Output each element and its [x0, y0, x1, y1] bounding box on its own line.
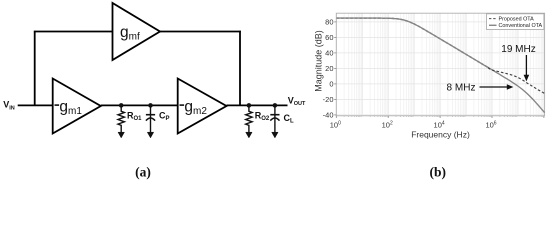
node junction RO1	[119, 103, 124, 108]
node junction CL	[273, 103, 278, 108]
bode plot axes box	[336, 13, 544, 116]
wire feedforward riser	[34, 31, 36, 105]
svg-text:Proposed OTA: Proposed OTA	[499, 17, 535, 23]
legend box	[487, 14, 544, 30]
curve proposed OTA (dashed, overlapping segment)	[337, 18, 491, 69]
svg-text:20: 20	[325, 64, 333, 73]
svg-text:40: 40	[325, 49, 333, 58]
curve proposed OTA (dashed, extended-bandwidth segment)	[488, 68, 545, 94]
svg-text:Frequency (Hz): Frequency (Hz)	[411, 130, 470, 140]
resistor RO1	[118, 105, 124, 132]
svg-text:Magnitude (dB): Magnitude (dB)	[314, 30, 324, 92]
legend dashed sample	[489, 18, 497, 20]
label -gm1	[55, 104, 60, 106]
ground RO2	[246, 132, 252, 138]
ground RO1	[118, 132, 124, 138]
arrow 8 MHz	[480, 86, 508, 88]
label -gm2	[180, 104, 185, 106]
svg-text:8 MHz: 8 MHz	[447, 83, 476, 94]
op-amp gm1	[53, 79, 101, 134]
svg-text:(b): (b)	[430, 165, 447, 180]
svg-text:60: 60	[325, 33, 333, 42]
bode plot grid	[336, 13, 544, 116]
wire gm1 to gm2	[101, 104, 179, 106]
legend solid sample	[489, 24, 497, 26]
ground CL	[272, 132, 278, 138]
bode x tick labels	[330, 120, 497, 129]
node junction RO2	[247, 103, 252, 108]
ground CP	[147, 132, 153, 138]
svg-text:80: 80	[325, 18, 333, 27]
op-amp gm2	[178, 79, 227, 134]
svg-text:-20: -20	[323, 95, 334, 104]
node junction CP	[148, 103, 153, 108]
bode plot ticks	[334, 22, 544, 118]
curve conventional OTA (solid)	[337, 18, 545, 113]
wire feedforward drop	[239, 31, 241, 106]
capacitor CP	[146, 105, 155, 132]
svg-text:0: 0	[329, 80, 333, 89]
wire gmf output	[160, 31, 241, 33]
wire gm2 output	[227, 104, 288, 106]
svg-text:-40: -40	[323, 111, 334, 120]
svg-text:19 MHz: 19 MHz	[501, 44, 535, 55]
resistor RO2	[246, 105, 252, 132]
arrow 19 MHz	[525, 55, 527, 76]
svg-text:Conventional OTA: Conventional OTA	[499, 23, 543, 29]
capacitor CL	[270, 105, 279, 132]
bode y tick labels	[323, 18, 334, 120]
wire input	[18, 104, 54, 106]
svg-text:(a): (a)	[135, 165, 151, 180]
wire feedforward top	[34, 31, 113, 33]
op-amp gmf	[113, 3, 161, 60]
